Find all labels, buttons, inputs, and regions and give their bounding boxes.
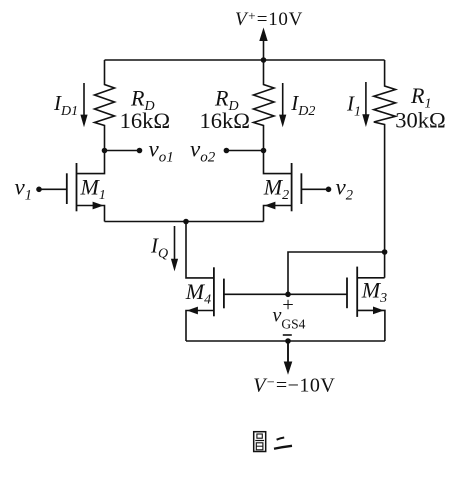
svg-text:ID2: ID2 (290, 91, 315, 119)
svg-text:M4: M4 (185, 279, 211, 308)
svg-text:30kΩ: 30kΩ (395, 108, 445, 133)
svg-text:vo2: vo2 (190, 137, 216, 166)
node junction dot vo1/drain M1 (102, 148, 108, 154)
resistor RD (right, RD2) (254, 60, 275, 151)
node vo2 terminal dot (224, 148, 230, 154)
caption figure 2 (CJK drawn as paths) (254, 432, 292, 452)
svg-text:M1: M1 (80, 175, 106, 204)
transistor M3 (347, 267, 385, 341)
wire gate lead v2 (301, 188, 328, 190)
wire vo2 stub (226, 150, 263, 152)
current arrow ID2 (279, 83, 286, 127)
svg-text:16kΩ: 16kΩ (200, 108, 250, 133)
wire shared gate line M4-M3 (224, 293, 347, 295)
power V+ supply arrow (259, 28, 267, 61)
resistor R1 (right, 30k) (374, 60, 396, 278)
node junction dot bottom (285, 338, 291, 344)
wire tail to M4 drain (186, 222, 214, 278)
node junction dot gate node (285, 292, 291, 298)
wire vo1 stub (105, 150, 140, 152)
svg-text:v1: v1 (15, 175, 32, 204)
node junction dot M3 drain (382, 249, 388, 255)
current arrow ID1 (80, 83, 87, 127)
wire gate lead v1 (39, 188, 67, 190)
svg-text:M3: M3 (361, 278, 387, 307)
svg-text:vo1: vo1 (149, 137, 174, 166)
svg-text:16kΩ: 16kΩ (120, 108, 170, 133)
svg-text:V+=10V: V+=10V (235, 8, 303, 30)
resistor RD (left, RD1) (95, 60, 115, 151)
wire top rail V+ (105, 59, 385, 61)
node junction dot at V+ rail / RD2 top (261, 57, 267, 63)
svg-text:v2: v2 (336, 175, 353, 204)
wire tail rail (sources of M1,M2) (105, 221, 264, 223)
wire gate-to-drain link of M3 (288, 252, 385, 294)
svg-text:M2: M2 (263, 175, 289, 204)
transistor M2 (264, 151, 302, 222)
node v2 terminal dot (326, 187, 332, 193)
node junction dot vo2/drain M2 (261, 148, 267, 154)
svg-text:V−=−10V: V−=−10V (253, 375, 335, 397)
wire bottom rail V- (186, 340, 385, 342)
node vo1 terminal dot (137, 148, 143, 154)
node v1 terminal dot (36, 187, 42, 193)
transistor M4 (186, 267, 224, 341)
svg-text:I1: I1 (346, 92, 361, 120)
svg-text:ID1: ID1 (53, 91, 78, 119)
power V- supply arrow (284, 341, 293, 375)
current arrow IQ (171, 226, 178, 271)
node junction dot tail (183, 219, 189, 225)
transistor M1 (67, 151, 105, 222)
svg-text:IQ: IQ (150, 234, 168, 262)
svg-text:+: + (282, 294, 294, 316)
minus sign of vGS4 (283, 334, 292, 336)
current arrow I1 (362, 82, 369, 127)
